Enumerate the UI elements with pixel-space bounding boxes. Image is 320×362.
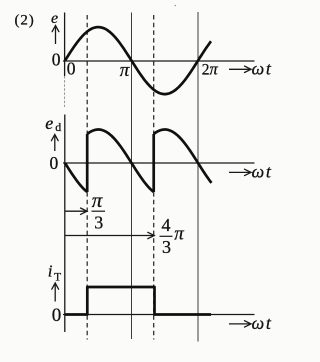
waveform ed jump at 4pi/3 [152,134,155,192]
sine wave e [65,27,211,94]
waveform ed segment 0 to pi/3 [65,163,87,192]
fraction 4/3: bar [160,235,173,237]
faint scan speck [175,5,177,7]
svg-text:3: 3 [162,237,171,257]
solid guide line at pi [131,13,133,340]
x-axis graph2 [63,162,255,164]
omega-t arrow graph3 [229,323,250,325]
dashed guide line at pi/3 [86,15,88,340]
svg-text:2π: 2π [202,60,219,79]
y-axis graph1 [64,13,66,77]
y-axis up arrow graph1 [55,27,57,44]
svg-text:0: 0 [67,58,76,78]
y-axis up arrow graph2 [54,136,56,151]
dimension arrow 4pi/3 [65,235,153,237]
omega-t arrow graph2 [229,171,250,173]
svg-text:(2): (2) [15,13,35,29]
svg-text:0: 0 [52,50,61,70]
dimension arrow pi/3 [65,210,86,212]
solid guide line at 2pi [197,12,199,342]
y-axis graph2 [64,115,66,333]
fraction pi/3: bar [92,210,106,212]
svg-text:ωt: ωt [252,59,272,79]
svg-text:3: 3 [94,213,103,233]
svg-text:π: π [120,60,130,81]
svg-text:4: 4 [162,215,171,235]
waveform ed segment after 4pi/3 [154,130,212,183]
waveform ed segment pi/3 to 4pi/3 [87,130,154,193]
svg-text:0: 0 [50,153,59,173]
waveform ed jump at pi/3 [86,134,89,192]
svg-text:ωt: ωt [252,313,272,333]
svg-text:π: π [92,188,103,212]
pulse waveform iT [65,287,211,315]
svg-text:ωt: ωt [252,162,272,182]
y-axis graph1 faint lower segment [64,76,66,107]
svg-text:0: 0 [52,305,62,326]
x-axis graph1 [63,60,255,62]
omega-t arrow graph1 [229,68,250,70]
svg-text:e: e [51,10,58,27]
dashed guide line at 4pi/3 [153,15,155,340]
x-axis graph3 [63,314,255,316]
y-axis up arrow graph3 [54,284,56,301]
svg-text:π: π [174,223,184,244]
